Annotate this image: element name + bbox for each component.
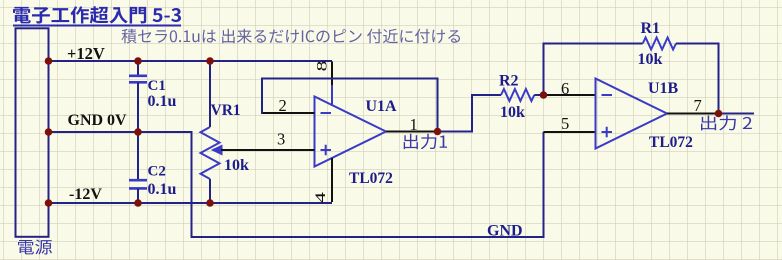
- wire output1 riser: [471, 95, 473, 133]
- capacitor C1: [129, 76, 147, 83]
- wire C2 top lead: [137, 132, 139, 180]
- wire -12V rail: [49, 202, 333, 204]
- wire to R2: [471, 94, 501, 96]
- capacitor C2: [129, 180, 147, 188]
- svg-text:3: 3: [277, 130, 285, 149]
- junction dot 8: [206, 199, 214, 207]
- potentiometer VR1: [201, 127, 220, 179]
- svg-text:TL072: TL072: [349, 170, 393, 187]
- junction dot 4: [45, 128, 53, 136]
- U1B pin5 lead: [544, 131, 596, 133]
- wire +12V rail: [49, 60, 333, 62]
- label 電源: [18, 239, 52, 254]
- VR1 wiper arrow: [212, 145, 222, 154]
- svg-text:10k: 10k: [224, 157, 249, 174]
- U1B plus input mark: [602, 127, 613, 137]
- svg-text:0.1u: 0.1u: [148, 93, 177, 110]
- svg-text:8: 8: [314, 61, 330, 72]
- svg-text:C2: C2: [148, 164, 166, 180]
- wire U1A feedback drop: [437, 78, 439, 132]
- U1B minus input mark: [602, 94, 613, 96]
- U1B pin7 lead: [667, 113, 719, 115]
- svg-text:R2: R2: [499, 73, 519, 90]
- svg-text:4: 4: [312, 192, 328, 203]
- wire output1 right: [438, 131, 473, 133]
- U1B pin6 lead: [544, 94, 596, 96]
- svg-text:0.1u: 0.1u: [148, 181, 177, 198]
- svg-text:GND 0V: GND 0V: [68, 112, 128, 129]
- svg-text:U1B: U1B: [648, 80, 679, 97]
- svg-text:10k: 10k: [638, 51, 663, 68]
- svg-text:TL072: TL072: [649, 134, 693, 151]
- junction dot 10: [540, 91, 548, 99]
- svg-text:10k: 10k: [500, 104, 525, 121]
- wire R2 to junction: [534, 94, 543, 96]
- svg-text:5: 5: [561, 114, 569, 133]
- svg-text:2: 2: [279, 96, 287, 115]
- svg-text:+12V: +12V: [67, 44, 105, 63]
- wire U1A feedback top: [261, 78, 438, 80]
- U1A minus input mark: [321, 112, 332, 114]
- wire GND rail drop: [191, 131, 193, 237]
- svg-text:U1A: U1A: [366, 98, 398, 115]
- U1A pin3 lead: [221, 149, 315, 151]
- wire R1 feedback drop: [718, 43, 720, 114]
- title text: [13, 6, 181, 23]
- U1A pin8 lead: [331, 62, 333, 87]
- wire C1 bottom lead: [137, 83, 139, 133]
- wire R1 feedback top right: [676, 43, 719, 45]
- op-amp U1A: [315, 97, 387, 167]
- svg-text:C1: C1: [148, 78, 166, 94]
- power supply box 電源: [16, 28, 49, 237]
- resistor R1: [643, 38, 676, 50]
- junction dot 7: [134, 199, 142, 207]
- wire R1 feedback riser: [543, 44, 545, 96]
- junction dot 6: [45, 199, 53, 207]
- resistor R2: [501, 89, 534, 101]
- svg-text:VR1: VR1: [211, 102, 241, 119]
- junction dot 9: [434, 128, 442, 136]
- U1A pin4 lead: [331, 158, 333, 202]
- U1A pin2 lead: [262, 112, 315, 114]
- U1A plus input mark: [321, 145, 332, 155]
- junction dot 2: [134, 57, 142, 65]
- wire C1 top lead: [137, 61, 139, 75]
- wire R1 feedback top left: [543, 43, 643, 45]
- svg-text:7: 7: [694, 96, 702, 115]
- junction dot 5: [134, 128, 142, 136]
- op-amp U1B: [596, 79, 668, 149]
- note text: [122, 29, 460, 44]
- label 出力1: [404, 134, 447, 150]
- svg-text:1: 1: [410, 115, 418, 134]
- wire VR1 bottom lead: [209, 179, 211, 203]
- svg-text:GND: GND: [487, 223, 523, 240]
- junction dot 3: [206, 57, 214, 65]
- svg-text:R1: R1: [641, 20, 661, 37]
- label 出力 2: [701, 115, 752, 130]
- wire output 2: [719, 113, 755, 115]
- wire C2 bottom lead: [137, 189, 139, 204]
- svg-text:6: 6: [561, 79, 569, 98]
- U1A pin8 stub: [331, 85, 333, 106]
- wire GND riser to U1B pin5: [543, 132, 545, 238]
- wire U1A feedback riser: [261, 79, 263, 115]
- wire GND rail: [49, 131, 192, 133]
- U1A pin1 lead: [386, 131, 438, 133]
- junction dot 11: [715, 110, 723, 118]
- svg-text:-12V: -12V: [69, 186, 102, 203]
- wire VR1 top lead: [209, 61, 211, 127]
- wire GND bottom net: [191, 236, 544, 238]
- junction dot 1: [45, 57, 53, 65]
